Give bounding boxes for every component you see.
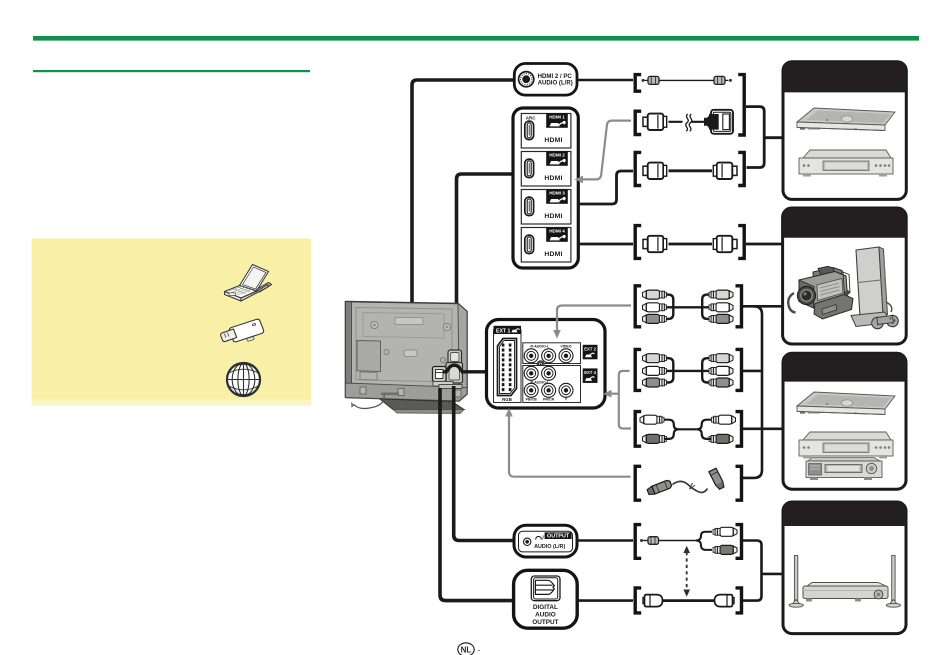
cable row: AV cable (3x RCA) to EXT right [635, 349, 641, 390]
note panel (yellow) [32, 239, 312, 406]
svg-text:NL: NL [461, 645, 472, 654]
hdmi2pc audio connector box [514, 64, 577, 96]
svg-text:DIGITAL: DIGITAL [533, 604, 558, 611]
gray arrow: dvi cable to HDMI2 [582, 121, 631, 180]
TV rear panel [346, 302, 468, 414]
wire: HDMI3 to hdmi cable row [578, 171, 633, 204]
game console illustration [851, 247, 898, 329]
gray arrow: AV row1 into EXT box top [557, 306, 631, 331]
wire: AV row1 to device box 2 and collector [743, 305, 784, 308]
device box: blu-ray / dvd player [783, 62, 906, 200]
DVI connector [705, 115, 713, 130]
svg-text:AUDIO: AUDIO [535, 611, 556, 618]
TV power cord with arrow [354, 395, 384, 409]
EXT 2 label [583, 345, 598, 360]
EXT connector box (SCART + AV) [487, 320, 606, 409]
svg-text:HDMI 2: HDMI 2 [549, 153, 565, 158]
svg-text:HDMI 3: HDMI 3 [549, 191, 565, 196]
audio OUTPUT box [514, 525, 577, 557]
svg-text:HDMI: HDMI [544, 175, 562, 182]
SCART connector [498, 339, 517, 396]
home theatre illustration [789, 556, 901, 608]
svg-text:AUDIO (L/R): AUDIO (L/R) [538, 80, 573, 87]
hdmi cell HDMI 2 [521, 151, 571, 186]
gray arrow: SCART cable row into EXT box bottom [509, 416, 631, 477]
svg-text:HDMI: HDMI [544, 137, 562, 144]
svg-text:OUTPUT: OUTPUT [547, 534, 570, 540]
device box: camcorder / game console [783, 208, 907, 344]
green sub rule [33, 70, 310, 72]
device box: home theatre system [783, 502, 906, 634]
cable row: minijack to 2x RCA [577, 539, 633, 542]
TV connector cluster [433, 350, 463, 389]
svg-text:OUTPUT: OUTPUT [532, 619, 558, 626]
usb dongle icon [221, 319, 264, 342]
cable row: optical digital cable [578, 599, 634, 602]
svg-text:RGB: RGB [502, 397, 512, 402]
svg-text:AUDIO (L/R): AUDIO (L/R) [534, 544, 565, 550]
svg-text:HDMI: HDMI [544, 213, 562, 220]
EXT1 scart section frame [494, 330, 522, 403]
wire: HDMI block (HDMI2) to TV [457, 174, 515, 357]
AV group 2 (EXT4 / component) [523, 366, 581, 403]
wire: TV down to AUDIO OUTPUT box [454, 386, 516, 541]
hdmi cell HDMI 1 [521, 113, 571, 148]
svg-text:EXT 1: EXT 1 [496, 328, 511, 334]
dashed either-or arrow [686, 552, 688, 590]
wire: HDMI2/PC audio box to TV (long left vertical) [412, 80, 515, 383]
AV group 1 (EXT2) [523, 343, 581, 364]
svg-text:EXT 2: EXT 2 [584, 347, 596, 352]
wire: HDMI4 to hdmi cable row [578, 243, 633, 246]
footer page label [458, 643, 481, 655]
wire: audio rows to device box 4 [743, 541, 762, 601]
gray arrow: AV rows 2-3 into EXT box right [619, 371, 631, 429]
svg-text:-: - [478, 646, 481, 655]
svg-text:HDMI 1: HDMI 1 [549, 115, 565, 120]
svg-text:HDMI: HDMI [544, 251, 562, 258]
EXT 4 label [583, 368, 598, 383]
hdmi cell HDMI 3 [521, 189, 571, 224]
svg-text:HDMI 4: HDMI 4 [549, 229, 565, 234]
wire: TV to EXT box (with jump arc) [443, 365, 488, 372]
wire: PC pair to device box 1 [746, 107, 764, 168]
cable row: AV cable (3x RCA) to EXT top [635, 286, 641, 327]
DIGITAL AUDIO OUTPUT box [514, 570, 578, 628]
cable row: video + audio cable [635, 412, 641, 447]
globe icon [227, 363, 260, 396]
link jack between groups [537, 361, 544, 368]
wire: TV down to DIGITAL AUDIO OUTPUT box [440, 388, 515, 601]
svg-text:PB/CB: PB/CB [526, 398, 538, 402]
cable row: SCART cable [635, 466, 641, 500]
camcorder illustration [788, 266, 853, 319]
hdmi cell HDMI 4 [521, 227, 571, 262]
svg-text:ARC: ARC [526, 116, 537, 121]
svg-text:VIDEO: VIDEO [560, 345, 571, 349]
vcr illustration [806, 458, 882, 481]
tall right bracket (PC pair) [738, 75, 744, 135]
hdmi input block [513, 108, 578, 268]
green header rule [33, 36, 919, 41]
cable row: stereo minijack (PC audio) [577, 79, 633, 82]
cable row: HDMI cable 2 [635, 226, 641, 259]
wire: HDMI cable 2 to device box 2 [746, 243, 784, 246]
svg-text:EXT 4: EXT 4 [584, 370, 596, 375]
cable row: HDMI-DVI cable [635, 111, 641, 134]
cable row: HDMI cable 1 [635, 152, 641, 185]
EXT 1 label [494, 326, 522, 334]
device box: blu-ray / dvd / vcr [783, 353, 906, 489]
svg-text:PR/CR: PR/CR [543, 398, 555, 402]
svg-text:R-AUDIO-L: R-AUDIO-L [530, 345, 550, 349]
laptop icon [225, 265, 272, 302]
